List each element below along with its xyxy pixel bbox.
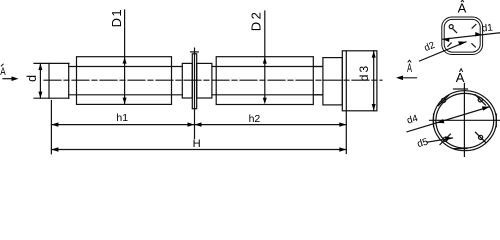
dimension d2 [420, 40, 467, 61]
bolt hole UR [475, 95, 485, 105]
core line top right [212, 66, 323, 68]
dimension d3 [357, 51, 376, 111]
center hole [449, 25, 453, 29]
dimension D2 [249, 10, 267, 105]
tick W [433, 114, 435, 127]
shaft axis centerline [44, 79, 382, 81]
dimension D1 [109, 8, 127, 104]
svg-text:А: А [0, 66, 6, 78]
svg-text:D1: D1 [109, 8, 124, 27]
tick S [454, 148, 467, 150]
collar left plate [182, 63, 192, 98]
collar right plate [197, 63, 212, 98]
dimension h1 [51, 112, 194, 127]
svg-text:d2: d2 [423, 40, 437, 54]
svg-text:h1: h1 [116, 112, 128, 124]
view arrow A (left) [0, 64, 18, 81]
svg-text:d5: d5 [416, 136, 430, 150]
flange horizontal centerline [430, 119, 500, 121]
dimension h2 [195, 113, 347, 127]
view A label (flange view) [456, 69, 465, 85]
shaft end disc (d3) [342, 51, 377, 111]
dimension d1 [443, 23, 500, 42]
dimension d4 [406, 106, 490, 131]
square end inner outline [444, 19, 480, 52]
core line bottom [69, 94, 183, 96]
corner tick LR [472, 44, 475, 47]
corner tick UR [472, 25, 476, 29]
dimension d (label + arrows) [25, 63, 42, 98]
flange inner circle [436, 93, 494, 148]
collar centerline [194, 48, 196, 138]
svg-text:А: А [456, 70, 465, 85]
svg-text:d: d [25, 75, 39, 82]
svg-text:А: А [407, 63, 412, 75]
tick N [454, 88, 468, 90]
corner tick LL [448, 43, 451, 46]
shaft square end (d section) [34, 63, 69, 98]
flange outer circle [433, 91, 496, 151]
svg-text:А: А [458, 1, 467, 16]
svg-text:d3: d3 [357, 64, 371, 81]
square end outer outline [442, 17, 483, 55]
corner tick UL [453, 29, 456, 32]
shaft section D2 [216, 57, 313, 105]
bolt hole LL [440, 134, 450, 144]
view A label (square end view) [458, 0, 467, 16]
view arrow A (right) [396, 60, 417, 80]
core line top [69, 66, 183, 68]
dimension H [51, 138, 346, 152]
dimension d5 [416, 136, 453, 150]
collar tick [191, 51, 199, 53]
svg-text:d1: d1 [481, 23, 493, 35]
svg-text:D2: D2 [249, 10, 264, 31]
flange vertical centerline [463, 84, 465, 157]
shaft section D1 [77, 57, 172, 105]
core line bottom right [212, 94, 323, 96]
extension line left [50, 101, 52, 154]
extension line right [345, 51, 347, 154]
svg-text:h2: h2 [249, 113, 261, 125]
neck lines right of D2 [313, 66, 323, 68]
shaft medium section [323, 58, 342, 105]
collar disc [192, 54, 196, 109]
svg-text:Н: Н [193, 138, 201, 150]
bolt hole UL [438, 95, 448, 105]
bolt hole LR [475, 132, 485, 142]
svg-text:d4: d4 [406, 113, 420, 127]
tick E [495, 114, 497, 127]
